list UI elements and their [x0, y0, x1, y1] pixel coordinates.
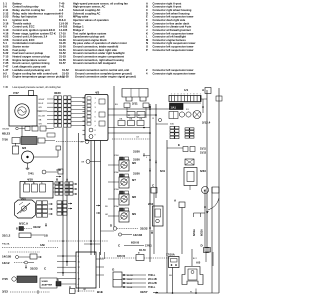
svg-text:8/2: 8/2 [22, 146, 27, 150]
svg-text:2/12: 2/12 [148, 202, 154, 206]
svg-text:31/1.2: 31/1.2 [2, 234, 11, 238]
svg-text:17/6.1: 17/6.1 [145, 245, 152, 248]
svg-text:Combination instrument: Combination instrument [13, 41, 44, 45]
svg-text:A/5: A/5 [196, 261, 201, 265]
svg-text:1: 1 [200, 94, 201, 96]
svg-text:1: 1 [171, 94, 172, 96]
svg-text:2/11.2B: 2/11.2B [148, 282, 157, 285]
svg-text:7/15: 7/15 [2, 277, 8, 281]
svg-text:3/1.50: 3/1.50 [139, 249, 146, 252]
svg-text:31/33: 31/33 [30, 267, 38, 271]
svg-text:4/3: 4/3 [95, 91, 100, 95]
svg-text:GN: GN [39, 107, 43, 109]
svg-text:6/31: 6/31 [160, 169, 166, 173]
vertical bus wires [62, 128, 64, 277]
svg-text:6/32A: 6/32A [200, 229, 204, 236]
svg-text:Connector right suspension tow: Connector right suspension tower [153, 71, 196, 75]
svg-text:GR: GR [39, 124, 43, 126]
svg-text:31-55: 31-55 [59, 58, 66, 62]
misc wires [37, 110, 47, 112]
svg-text:8: 8 [193, 94, 194, 96]
svg-text:31-45: 31-45 [59, 41, 66, 45]
component legend text block [3, 1, 196, 78]
svg-text:H: H [146, 25, 148, 29]
svg-text:By-pass valve of operation of: By-pass valve of operation of starter mo… [73, 41, 127, 45]
svg-text:BL-W: BL-W [127, 283, 132, 285]
svg-text:17/10A: 17/10A [166, 253, 175, 257]
svg-text:7-30: 7-30 [3, 85, 9, 89]
svg-text:31/32: 31/32 [140, 227, 148, 231]
svg-text:7/40-L: 7/40-L [148, 286, 156, 289]
svg-text:VO: VO [39, 111, 42, 113]
control unit 4/22 LH-Jetronic [76, 252, 96, 288]
svg-text:B1E: B1E [97, 290, 103, 294]
svg-text:6/35-50: 6/35-50 [131, 242, 140, 245]
svg-text:5-1: 5-1 [3, 41, 7, 45]
svg-text:4-3: 4-3 [3, 25, 7, 29]
svg-text:14/102: 14/102 [133, 233, 143, 237]
svg-text:14/105: 14/105 [2, 255, 12, 259]
svg-text:8/8: 8/8 [132, 195, 136, 199]
svg-text:Connector right wheel housing: Connector right wheel housing [153, 8, 192, 12]
svg-text:BL-SB: BL-SB [127, 275, 133, 277]
svg-text:7/16: 7/16 [2, 138, 8, 142]
wire runs lower middle [48, 240, 108, 242]
svg-text:31/13: 31/13 [200, 152, 207, 155]
wires from 4/10 to bus [53, 183, 55, 185]
svg-text:GN-W: GN-W [39, 99, 45, 101]
svg-text:Relay, electric cooling fan: Relay, electric cooling fan [13, 8, 46, 12]
right feed wires [206, 90, 208, 253]
svg-text:Connector right suspension tow: Connector right suspension tower [153, 41, 196, 45]
svg-text:3030: 3030 [54, 91, 61, 95]
svg-text:Connector in climate unit 4-pi: Connector in climate unit 4-pin [153, 25, 192, 29]
svg-text:2-11: 2-11 [3, 8, 9, 12]
svg-text:31/11: 31/11 [200, 148, 207, 151]
svg-text:31/50: 31/50 [133, 158, 140, 162]
svg-text:31/50: 31/50 [133, 172, 140, 176]
svg-text:GE: GE [81, 162, 85, 164]
svg-text:Ground connection, right wheel: Ground connection, right wheel housing [73, 58, 124, 62]
svg-text:W-SB: W-SB [127, 287, 133, 289]
svg-text:15: 15 [152, 118, 154, 120]
svg-text:8/9: 8/9 [132, 212, 136, 216]
svg-text:E: E [178, 143, 180, 147]
svg-text:N: N [146, 41, 148, 45]
svg-text:Control unit, ECC: Control unit, ECC [13, 25, 35, 29]
svg-text:Low-speed pressure sensor, oil: Low-speed pressure sensor, oil cooling f… [13, 85, 62, 89]
svg-text:8/6: 8/6 [132, 161, 136, 165]
svg-text:9: 9 [197, 94, 198, 96]
svg-text:Connector left suspension towe: Connector left suspension tower [153, 48, 194, 52]
svg-text:2/11.1B: 2/11.1B [148, 278, 157, 281]
svg-text:10-2: 10-2 [3, 75, 9, 79]
svg-text:Ground connection left mudguar: Ground connection left mudguard [73, 61, 116, 65]
svg-text:F/A13A: F/A13A [2, 243, 10, 246]
svg-text:A-3: A-3 [59, 8, 64, 12]
svg-text:7/41: 7/41 [28, 172, 34, 176]
svg-text:C: C [146, 8, 148, 12]
svg-text:6/35-50: 6/35-50 [117, 255, 126, 258]
svg-text:Leak diagnostic pump unit: Leak diagnostic pump unit [13, 65, 47, 69]
svg-text:J: J [146, 157, 147, 159]
svg-text:2/11: 2/11 [132, 102, 138, 106]
svg-text:3/13: 3/13 [2, 290, 8, 294]
svg-text:7/47: 7/47 [13, 91, 19, 95]
svg-text:Engine temperature gauge senso: Engine temperature gauge sensor pickup [13, 75, 65, 79]
svg-text:GN-SB: GN-SB [2, 128, 9, 130]
svg-text:1/1: 1/1 [184, 88, 189, 92]
svg-text:6B.23: 6B.23 [2, 132, 10, 136]
svg-text:2/12.4: 2/12.4 [202, 121, 211, 125]
svg-text:8/7: 8/7 [132, 178, 136, 182]
svg-text:8/1C.9: 8/1C.9 [19, 222, 28, 226]
svg-text:31/32: 31/32 [33, 225, 41, 229]
node GE junctions [85, 140, 89, 144]
svg-text:7-16: 7-16 [3, 58, 9, 62]
connector pin box [13, 146, 19, 154]
svg-text:6/33: 6/33 [200, 169, 206, 173]
svg-text:2: 2 [174, 94, 175, 96]
svg-text:Ground connection under engine: Ground connection under engine signal gr… [75, 75, 136, 79]
svg-text:14/12: 14/12 [2, 261, 10, 265]
relay K2/11 electric cooling fan [122, 89, 148, 102]
svg-text:4/10: 4/10 [27, 178, 33, 182]
svg-text:4: 4 [181, 94, 182, 96]
svg-text:1/B: 1/B [44, 235, 48, 238]
fuel level sensor 3/31 [15, 200, 36, 218]
svg-text:Bridge 1: Bridge 1 [73, 25, 84, 29]
svg-text:1/A1: 1/A1 [171, 105, 177, 109]
svg-text:31/57: 31/57 [140, 290, 148, 294]
svg-text:3: 3 [177, 94, 178, 96]
svg-text:3/31: 3/31 [21, 198, 26, 201]
svg-text:Solenoid coupling AC: Solenoid coupling AC [73, 8, 100, 12]
wire bus below control unit 4/3 [90, 141, 92, 256]
main vertical feed wires [113, 86, 115, 227]
svg-text:5: 5 [184, 94, 185, 96]
svg-text:B: B [16, 228, 18, 231]
svg-text:ADAPTER: ADAPTER [42, 284, 53, 287]
svg-text:BL-R: BL-R [39, 103, 44, 105]
svg-text:14-102: 14-102 [59, 25, 68, 29]
svg-text:6: 6 [187, 94, 188, 96]
svg-text:7/30-L: 7/30-L [148, 274, 156, 277]
svg-text:P: P [146, 48, 148, 52]
svg-text:7-47: 7-47 [3, 65, 9, 69]
svg-text:7: 7 [190, 94, 191, 96]
svg-text:31/50: 31/50 [133, 150, 140, 154]
svg-text:6/31A: 6/31A [192, 229, 196, 236]
svg-text:SB-W: SB-W [127, 279, 132, 281]
svg-text:Engine temperature sensor: Engine temperature sensor [13, 58, 47, 62]
svg-text:SOND: SOND [42, 281, 49, 283]
svg-text:BL-GR: BL-GR [39, 115, 46, 117]
svg-text:31-57: 31-57 [59, 61, 66, 65]
svg-text:GE: GE [80, 142, 84, 144]
wires from connector 3030 to control unit 4/3 [71, 97, 85, 99]
